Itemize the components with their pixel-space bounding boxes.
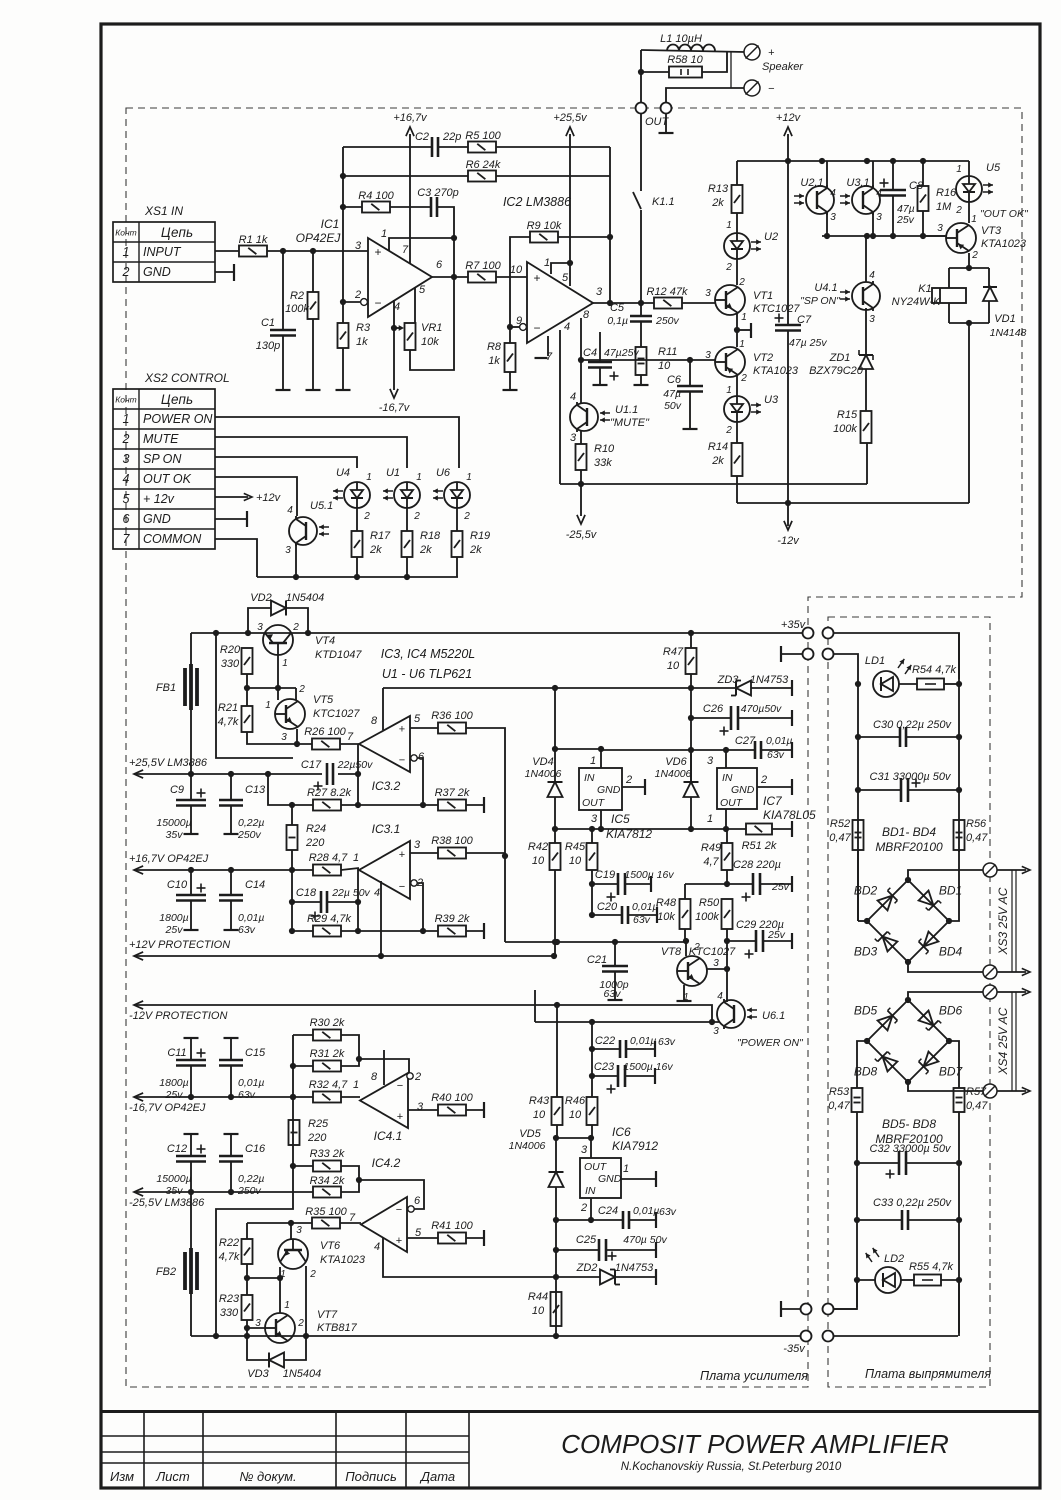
capacitor C3 [431, 197, 437, 217]
label R48 value [657, 911, 675, 923]
wire R2 bottom stem [312, 319, 314, 390]
wire LD2 line left [857, 1279, 875, 1281]
wire C32 line [857, 1162, 899, 1164]
svg-text:R23: R23 [219, 1293, 240, 1305]
label VD5 [519, 1128, 541, 1140]
svg-text:+25,5v: +25,5v [553, 112, 588, 124]
wire to IC4.2 pin6 [359, 1180, 424, 1209]
terminal C19 [650, 876, 652, 892]
svg-text:K1: K1 [918, 283, 931, 295]
plate pin OUT a [636, 103, 647, 114]
node x592 tap [589, 1019, 595, 1025]
svg-text:2: 2 [298, 684, 305, 695]
wire C14 bottom [230, 901, 232, 929]
capacitor C5 [630, 316, 652, 322]
label VT6 type [320, 1254, 366, 1266]
terminal XS3 pin1 [983, 863, 997, 877]
svg-text:1: 1 [590, 755, 596, 767]
ground bar XS2 GND [246, 511, 248, 527]
wire R30 line [293, 1034, 313, 1036]
junction top rail x822 [819, 158, 825, 164]
wire R4 line [343, 206, 362, 208]
wire R19 to bus [456, 557, 458, 577]
node VD6 out [688, 826, 694, 832]
svg-text:C6: C6 [667, 374, 682, 386]
svg-text:2k: 2k [369, 544, 382, 556]
wire VT6 pin1 stub [279, 1267, 281, 1278]
capacitor C6 [677, 386, 703, 392]
resistor R46 [587, 1097, 598, 1125]
svg-text:1: 1 [971, 214, 977, 225]
svg-text:330: 330 [221, 658, 240, 670]
wire x535 stub [534, 990, 536, 1022]
label FB1 [156, 682, 176, 694]
capacitor C12 [176, 1156, 206, 1162]
resistor R21 [242, 706, 253, 732]
wire relay top loop [949, 267, 989, 269]
wire IC3.2 pin8 stub [382, 688, 384, 730]
svg-text:R24: R24 [306, 823, 326, 835]
pin 3 of IC6 [581, 1144, 588, 1156]
svg-text:3: 3 [705, 350, 711, 361]
svg-text:63v: 63v [238, 1089, 256, 1101]
label BD7 [939, 1065, 964, 1079]
terminal IC5 GND [644, 779, 646, 795]
svg-text:1N4006: 1N4006 [525, 768, 562, 780]
wire C21 stem [614, 942, 616, 966]
optocoupler LED U3 [724, 396, 761, 422]
ground VT8 [677, 1000, 692, 1002]
svg-text:63v: 63v [658, 1036, 676, 1048]
label C4 value [604, 347, 639, 359]
net +16,7v [393, 112, 428, 124]
svg-text:"SP ON": "SP ON" [800, 295, 841, 307]
wire IC7 pin3 stub [725, 750, 727, 768]
label C24 value2 [659, 1206, 677, 1218]
wire R47 bottom column [690, 674, 692, 782]
node rail2 c10 [188, 867, 194, 873]
label VT5 type [313, 708, 360, 720]
node IC2 pin8 mute join [578, 357, 584, 363]
wire R31 line [293, 1065, 313, 1067]
wire VT5 emitter to R26 line [296, 729, 298, 744]
svg-text:VD2: VD2 [250, 592, 271, 604]
wire XS3 pin1 arrow line [997, 869, 1026, 871]
capacitor C2 [432, 137, 438, 157]
wire C19 line [592, 883, 618, 885]
plus C17 [314, 782, 323, 791]
svg-text:OUT: OUT [584, 1161, 608, 1173]
label R47 [663, 646, 684, 658]
node C32 right [956, 1160, 962, 1166]
board label Плата выпрямителя [865, 1367, 991, 1381]
svg-text:U1: U1 [386, 467, 400, 479]
svg-text:Подпись: Подпись [345, 1469, 397, 1484]
pin 3 of VT6 [296, 1225, 302, 1236]
board label Плата усилителя [700, 1369, 808, 1383]
svg-text:VD5: VD5 [519, 1128, 541, 1140]
LED LD2 [875, 1267, 901, 1293]
wire R23 bottom [246, 1320, 248, 1336]
svg-text:VT1: VT1 [753, 290, 773, 302]
label C1 value [256, 340, 280, 352]
wire +12v head line [787, 134, 789, 161]
wire relay left down [948, 268, 950, 288]
svg-text:-12v: -12v [777, 535, 800, 547]
pin 3 of IC7 [707, 755, 714, 767]
svg-text:IC5: IC5 [611, 812, 630, 826]
svg-text:IC3, IC4 M5220L: IC3, IC4 M5220L [381, 647, 476, 661]
svg-text:+: + [399, 723, 405, 735]
ground C16 top [224, 1133, 239, 1135]
wire -12v stub [787, 503, 789, 526]
pin 6 of IC3.2 [418, 751, 425, 763]
terminal R37 [483, 797, 485, 813]
node rail6 c12 [188, 1189, 194, 1195]
resistor R58 [669, 67, 702, 78]
svg-text:VT5: VT5 [313, 694, 334, 706]
transistor VT2 KTA1023 [715, 347, 745, 377]
power arrow +12V PROTECTION [134, 952, 143, 960]
plate pin -35 b [823, 1331, 834, 1342]
svg-text:IN: IN [722, 772, 733, 784]
terminal XS4 pin1 [983, 985, 997, 999]
terminal C23 [654, 1068, 656, 1084]
pin 1 of VT7 [284, 1300, 290, 1311]
svg-text:3: 3 [296, 1225, 302, 1236]
svg-text:C2: C2 [415, 131, 429, 143]
resistor R7 [465, 260, 501, 283]
node x712 join [709, 1019, 715, 1025]
bridge rectifier BD5-BD8 vertex node [946, 1038, 952, 1044]
ground C1 [276, 389, 291, 391]
wire x358 vertical [357, 744, 359, 805]
pin 8 of IC2 [583, 309, 590, 321]
node VT4-R20 [244, 685, 250, 691]
label BD1-BD4 [882, 825, 936, 839]
net +12v at XS2 [256, 492, 282, 504]
inverting input circle IC2 pin9 [520, 324, 527, 331]
label C24 value1 [633, 1205, 660, 1217]
wire C15 bottom [230, 1066, 232, 1097]
wire VT7 base [247, 1327, 265, 1329]
optocoupler LED U6 [433, 482, 470, 508]
svg-text:BD5: BD5 [854, 1004, 878, 1018]
node C23 tap [589, 1073, 595, 1079]
label IC7 type [763, 808, 816, 822]
node R29 left [289, 928, 295, 934]
label BD4 [939, 945, 963, 959]
wire gnd stub [737, 329, 751, 331]
ground C15 top [224, 1037, 239, 1039]
svg-text:10: 10 [569, 1109, 582, 1121]
wire R22 R23 node [246, 1264, 248, 1278]
svg-text:R40 100: R40 100 [431, 1092, 473, 1104]
svg-text:R3: R3 [356, 322, 371, 334]
label IC6 type [612, 1139, 658, 1153]
node pin1 tap [567, 260, 573, 266]
node relay top [966, 265, 972, 271]
title block grid [101, 1412, 1040, 1487]
svg-text:VT2: VT2 [753, 352, 773, 364]
title block cell Изм [110, 1469, 134, 1484]
wire +35 rail right [691, 632, 806, 634]
label L1 [660, 33, 702, 45]
wire R46 top [591, 1022, 593, 1097]
svg-text:C12: C12 [167, 1143, 187, 1155]
label C10 value2 [165, 924, 184, 936]
wire ZD2 line [556, 1276, 600, 1278]
resistor R54 [917, 679, 944, 690]
node output K1.1 join [638, 300, 644, 306]
pin 1 of VT6 [280, 1269, 286, 1280]
label IC2 LM3886 [503, 195, 571, 209]
wire VD3 left leg [247, 1336, 269, 1360]
node rail5 c11 [188, 1094, 194, 1100]
wire left column LD1 to C30 [857, 684, 859, 921]
wire XS1 INPUT to R1 [215, 250, 239, 252]
svg-text:6: 6 [414, 1195, 421, 1207]
label LD1 [865, 655, 885, 667]
wire ZD3 line [691, 687, 736, 689]
capacitor C30 [900, 727, 906, 747]
svg-text:100k: 100k [695, 911, 719, 923]
arrow XS3 pin2 [1022, 968, 1030, 975]
wire R7 to IC2 pin10 [496, 276, 527, 278]
capacitor C31 [901, 778, 908, 802]
resistor R6 [466, 159, 501, 182]
label R13 [708, 183, 729, 195]
wire R29 to R39 [341, 930, 438, 932]
wire C28 right [760, 883, 792, 885]
wire C1 top stem [282, 251, 284, 330]
svg-text:LD1: LD1 [865, 655, 885, 667]
net -16,7v [379, 402, 411, 414]
svg-text:1k: 1k [488, 355, 500, 367]
resistor R44 [551, 1292, 562, 1326]
svg-text:R19: R19 [470, 530, 490, 542]
wire U1 to resistor [406, 508, 408, 531]
wire R9 to output column [558, 236, 610, 238]
svg-text:15000µ: 15000µ [156, 1173, 191, 1185]
svg-text:3: 3 [123, 452, 130, 466]
label R13 value [711, 197, 724, 209]
wire lower rail y236 [822, 235, 945, 237]
node L1 R58 left [638, 69, 644, 75]
svg-text:VT4: VT4 [315, 635, 335, 647]
wire +25,5v column [569, 134, 571, 286]
wire node to VT5 [277, 688, 279, 700]
label R22 value [219, 1251, 240, 1263]
label C6 value2 [664, 400, 682, 412]
wire C15 top [230, 1038, 232, 1060]
wire R24 bottom stub [291, 850, 293, 870]
svg-text:VT7: VT7 [317, 1309, 338, 1321]
label C24 [598, 1205, 618, 1217]
wire opto bus [257, 576, 458, 578]
label C27 value2 [767, 749, 785, 761]
label R15 [837, 409, 858, 421]
wire IC3.1 pin4 supply [380, 881, 382, 956]
net XS3 25V AC [996, 887, 1010, 955]
ground C6 [683, 428, 698, 430]
svg-text:2: 2 [413, 511, 420, 522]
resistor R36 [438, 723, 466, 734]
optocoupler U3.1 [840, 185, 880, 215]
label C13 [245, 784, 266, 796]
label R23 value [220, 1307, 239, 1319]
label IC5 [611, 812, 630, 826]
svg-text:7: 7 [123, 532, 131, 546]
svg-text:10: 10 [658, 360, 671, 372]
wire bridge1 bottom to XS3 [908, 962, 984, 972]
wire U1.1 pin4 stub [580, 360, 582, 404]
label R14 [708, 441, 728, 453]
label R18 [420, 530, 441, 542]
wire R26 to IC3.2 output [340, 743, 359, 745]
plus C25 [608, 1252, 617, 1261]
svg-text:C7: C7 [797, 314, 812, 326]
bridge rectifier BD5-BD8 [867, 1000, 949, 1082]
svg-text:0,01µ: 0,01µ [630, 1035, 657, 1047]
transistor VT3 KTA1023 [946, 223, 976, 253]
wire U3.1 pin4 [872, 161, 874, 188]
svg-text:4: 4 [287, 505, 293, 516]
svg-text:2: 2 [738, 277, 745, 288]
wire IN line y749 [555, 748, 601, 750]
pin 4 of IC2 [564, 321, 570, 333]
resistor R23 [242, 1295, 253, 1320]
wire IN line y1220 [556, 1219, 623, 1221]
wire bridge1 top to XS3 [908, 870, 984, 880]
label R31 [310, 1048, 345, 1060]
label R22 [219, 1237, 239, 1249]
svg-text:KTC1027: KTC1027 [313, 708, 360, 720]
svg-text:R53: R53 [829, 1086, 850, 1098]
label Speaker [762, 61, 804, 73]
ground C12 top [184, 1133, 199, 1135]
pin 1 of U6 [466, 472, 472, 483]
svg-text:−: − [768, 83, 775, 95]
svg-text:2: 2 [740, 373, 747, 384]
svg-text:U6: U6 [436, 467, 451, 479]
wire R45 bottom [591, 870, 593, 915]
wire R58 left [641, 71, 669, 73]
svg-text:MBRF20100: MBRF20100 [875, 840, 943, 854]
capacitor C29 [756, 930, 763, 952]
node R9 output column [607, 234, 613, 240]
label BD2 [854, 884, 878, 898]
svg-text:3: 3 [713, 958, 719, 969]
wire C18 line [292, 901, 321, 903]
label U6.1 [762, 1010, 785, 1022]
svg-text:22µ50v: 22µ50v [337, 759, 373, 771]
svg-text:R39 2k: R39 2k [435, 913, 470, 925]
svg-text:VD4: VD4 [532, 756, 553, 768]
svg-text:NY24W-K: NY24W-K [892, 296, 941, 308]
label R21 value [218, 716, 239, 728]
pin 1 of VT1 [741, 312, 747, 323]
label C5 value1 [607, 315, 628, 327]
wire C13 stem [230, 774, 232, 800]
pin 4 of U3.1 [876, 188, 882, 199]
label R44 [528, 1291, 548, 1303]
capacitor C17 [327, 763, 333, 785]
op-amp IC4.2 [361, 1197, 407, 1252]
node rail1 c9 [188, 771, 194, 777]
svg-text:R51 2k: R51 2k [742, 840, 777, 852]
label R53 value [828, 1100, 850, 1112]
plate pin -35 a [801, 1331, 812, 1342]
svg-text:R41 100: R41 100 [431, 1220, 473, 1232]
label U4.1 [814, 282, 837, 294]
wire C7 bottom [787, 331, 789, 503]
svg-text:R45: R45 [565, 841, 586, 853]
svg-text:Конт: Конт [115, 228, 137, 238]
wire MUTE row [215, 437, 407, 468]
svg-text:IN: IN [584, 772, 595, 784]
svg-text:R7 100: R7 100 [465, 260, 501, 272]
label R38 [431, 835, 473, 847]
wire R1 to IC1 pin3 [267, 250, 368, 252]
label VD4 type [525, 768, 562, 780]
wire C28 line left [685, 883, 727, 885]
svg-text:+16,7V OP42EJ: +16,7V OP42EJ [129, 853, 209, 865]
label VT8 [661, 946, 682, 958]
diode VD3 1N5404 [269, 1353, 284, 1368]
label C10 value1 [159, 912, 188, 924]
pin 2 of IC1 [354, 289, 361, 301]
wire C4 bottom [599, 368, 601, 385]
svg-text:IC4.1: IC4.1 [374, 1129, 403, 1143]
label R20 [220, 644, 241, 656]
transistor VT5 KTC1027 [275, 699, 305, 729]
wire U5 to VT3 [968, 202, 970, 223]
label R56 [966, 818, 987, 830]
wire R2 top stem [312, 251, 314, 292]
wire x358 vertical low [357, 868, 359, 931]
label R50 value [695, 911, 719, 923]
svg-text:0,47: 0,47 [966, 1100, 988, 1112]
label C14 value2 [238, 924, 256, 936]
wire C1 bottom stem [282, 336, 284, 390]
label R12 [647, 286, 688, 298]
svg-text:U4.1: U4.1 [814, 282, 837, 294]
arrow XS3 pin1 [1022, 866, 1030, 873]
pin 1 of IC7 [707, 813, 713, 825]
label C15 [245, 1047, 266, 1059]
svg-text:1N5404: 1N5404 [286, 592, 325, 604]
svg-text:2: 2 [971, 250, 978, 261]
label C7 [797, 314, 812, 326]
wire C5 to R11 [640, 322, 642, 347]
label R23 [219, 1293, 240, 1305]
resistor R43 [552, 1097, 563, 1125]
pin 1 of U4 [366, 472, 372, 483]
wire R43 bottom stub [556, 1125, 558, 1138]
svg-text:1: 1 [353, 852, 359, 864]
svg-text:4: 4 [570, 391, 576, 403]
inv circle IC3.2 [411, 755, 417, 761]
label VT2 type [753, 365, 799, 377]
pin 3 of VT8 [713, 958, 719, 969]
wire R4 to C3 [390, 206, 431, 208]
svg-text:4,7k: 4,7k [218, 716, 239, 728]
svg-text:2: 2 [414, 1071, 421, 1083]
svg-text:4: 4 [374, 887, 380, 899]
svg-text:1: 1 [544, 257, 550, 269]
terminal C26 [791, 710, 793, 726]
